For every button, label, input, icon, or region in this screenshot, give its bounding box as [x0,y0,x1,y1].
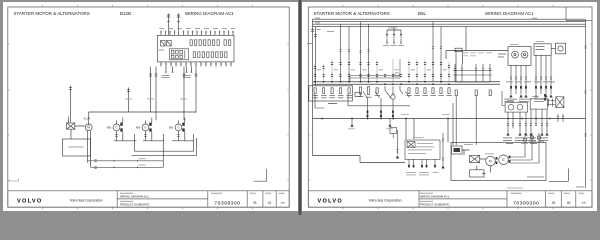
svg-text:IB: IB [253,201,256,205]
svg-text:70399300: 70399300 [214,201,240,207]
svg-text:Volvo Bus Corporation: Volvo Bus Corporation [69,199,102,203]
svg-text:30: 30 [552,201,556,205]
svg-text:WIRING DIAGRAM AC1: WIRING DIAGRAM AC1 [120,195,150,199]
svg-text:MB: MB [135,126,140,130]
svg-text:G: G [144,126,147,130]
svg-text:PRODUCT SCHEMATIC: PRODUCT SCHEMATIC [120,203,150,207]
svg-text:mm: mm [582,202,586,205]
svg-text:01: 01 [267,201,271,205]
svg-text:G: G [502,158,505,162]
svg-text:Volvo Bus Corporation: Volvo Bus Corporation [369,199,402,203]
svg-text:B9L: B9L [418,11,427,16]
svg-text:WIRING DIAGRAM AC1: WIRING DIAGRAM AC1 [185,11,234,16]
svg-text:PRODUCT SCHEMATIC: PRODUCT SCHEMATIC [420,203,450,207]
svg-text:mm: mm [280,202,284,205]
svg-text:M: M [87,126,90,130]
svg-text:MB: MB [106,126,111,130]
svg-text:STARTER MOTOR & ALTERNATORS: STARTER MOTOR & ALTERNATORS [13,11,89,16]
svg-text:WIRING DIAGRAM AC1: WIRING DIAGRAM AC1 [420,195,450,199]
svg-text:M: M [489,160,492,164]
svg-text:70399300: 70399300 [513,201,539,207]
svg-text:VOLVO: VOLVO [17,199,42,205]
svg-text:VOLVO: VOLVO [318,199,343,205]
svg-text:AL04: AL04 [83,117,90,121]
svg-text:00: 00 [567,201,571,205]
svg-text:G: G [177,126,180,130]
svg-text:220A: 220A [158,49,164,52]
svg-text:G: G [115,126,118,130]
svg-text:WIRING DIAGRAM AC1: WIRING DIAGRAM AC1 [485,11,534,16]
svg-text:STARTER MOTOR & ALTERNATORS: STARTER MOTOR & ALTERNATORS [314,11,390,16]
svg-text:MB: MB [168,126,173,130]
svg-text:B12B: B12B [120,11,131,16]
